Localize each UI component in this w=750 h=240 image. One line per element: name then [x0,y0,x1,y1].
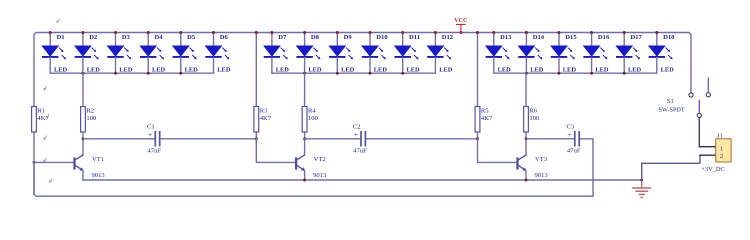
junction top rail at D17 [623,31,626,34]
resistor R2 value 100 (body + labels) [81,107,97,133]
svg-text:4K7: 4K7 [37,115,49,122]
wire collector VT2 to C2 left plate [305,138,361,140]
svg-text:C3: C3 [567,123,575,130]
junction bus at D9 cathode [336,72,339,75]
svg-text:VT1: VT1 [92,156,104,163]
LED D5 (wire, diode symbol, emission arrows, labels) [173,33,199,74]
LED D6 (wire, diode symbol, emission arrows, labels) [205,33,231,74]
svg-text:D10: D10 [376,34,388,41]
junction emitter VT3 on rail [525,179,528,182]
junction top rail at D5 [179,31,182,34]
LED D8 (wire, diode symbol, emission arrows, labels) [296,33,322,74]
svg-text:D6: D6 [220,34,229,41]
LED D2 (wire, diode symbol, emission arrows, labels) [75,33,101,74]
junction collector node VT3 [525,137,528,140]
junction bus at D4 cathode [147,72,150,75]
LED D13 (wire, diode symbol, emission arrows, labels) [486,33,513,74]
junction top rail at D2 [81,31,84,34]
junction bus at D11 cathode [401,72,404,75]
svg-text:100: 100 [308,115,319,122]
svg-text:VT2: VT2 [314,156,326,163]
switch S1 SW-SPDT (throw stubs, contacts, blade, pole) [659,78,711,118]
wire emitter/ground rail [83,179,642,181]
svg-text:D15: D15 [565,34,577,41]
svg-text:2: 2 [720,153,723,160]
wire VT3 emitter to emitter rail [525,171,527,180]
svg-text:LED: LED [217,67,231,74]
svg-text:9013: 9013 [535,172,549,179]
svg-text:D8: D8 [311,34,320,41]
junction top rail at D4 [147,31,150,34]
svg-text:4K7: 4K7 [260,115,272,122]
svg-text:D3: D3 [122,34,131,41]
wire bus to R6 top [525,73,527,106]
LED D18 (wire, diode symbol, emission arrows, labels) [649,33,676,74]
wire base node down to feedback rail [33,162,35,194]
wire LED cathode bus group 3 [494,72,657,74]
transistor VT1 9013 NPN (bar, collector, emitter with arrow, labels) [75,155,106,179]
svg-text:SW-SPDT: SW-SPDT [659,106,685,113]
LED D16 (wire, diode symbol, emission arrows, labels) [583,33,610,74]
junction bus at D2 cathode [81,72,84,75]
svg-text:D18: D18 [663,34,675,41]
svg-text:J1: J1 [717,132,723,139]
pin 2 stub of J1 [700,154,716,156]
wire C2 right plate to next stage [365,138,477,140]
svg-text:D13: D13 [500,34,512,41]
junction bus at D3 cathode [114,72,117,75]
LED D17 (wire, diode symbol, emission arrows, labels) [616,33,643,74]
wire base node down and to VT3 base [478,139,518,163]
wire R6 bottom to collector node [525,132,527,155]
svg-text:R5: R5 [481,108,489,115]
svg-text:D17: D17 [631,34,643,41]
wire bus to R2 top [82,73,84,106]
capacitor C3 47uF polarized (plates, + sign, labels) [567,123,581,154]
wire base node to VT1 base [34,161,75,163]
svg-text:100: 100 [86,115,97,122]
svg-text:R4: R4 [308,108,316,115]
junction base node VT2 [255,137,258,140]
svg-text:S1: S1 [667,98,674,105]
LED D12 (wire, diode symbol, emission arrows, labels) [427,33,454,74]
svg-text:C2: C2 [353,123,361,130]
transistor VT2 9013 NPN (bar, collector, emitter with arrow, labels) [296,155,327,179]
wire R1 bottom to base node [33,132,35,162]
ground symbol [632,180,651,197]
wire ground rail up to J1 pin 2 [642,155,700,180]
svg-text:4K7: 4K7 [481,115,493,122]
svg-text:R2: R2 [86,108,94,115]
LED D1 (wire, diode symbol, emission arrows, labels) [42,33,68,74]
wire S1 pole to J1 pin 1 [698,118,700,147]
svg-text:D2: D2 [89,34,98,41]
svg-text:R6: R6 [529,108,537,115]
resistor R3 value 4K7 (body + labels) [254,107,272,133]
resistor R4 value 100 (body + labels) [302,107,318,133]
svg-text:D9: D9 [344,34,353,41]
wire VT2 emitter to emitter rail [304,171,306,180]
power symbol VCC [454,17,467,33]
junction top rail at D3 [114,31,117,34]
svg-text:1: 1 [720,145,723,152]
junction rail at R5 [476,31,479,34]
LED D7 (wire, diode symbol, emission arrows, labels) [264,33,290,74]
junction top rail at D13 [492,31,495,34]
junction collector node VT1 [82,137,85,140]
svg-text:R1: R1 [37,108,45,115]
svg-text:D12: D12 [442,34,454,41]
pin 1 stub of J1 [699,146,715,148]
junction top rail at D12 [434,31,437,34]
junction top rail at D6 [212,31,215,34]
LED D10 (wire, diode symbol, emission arrows, labels) [362,33,389,74]
svg-text:+: + [568,130,572,139]
junction top rail at D14 [525,31,528,34]
LED D15 (wire, diode symbol, emission arrows, labels) [551,33,578,74]
junction base node VT3 [476,137,479,140]
wire LED cathode bus group 1 [50,72,213,74]
svg-text:D16: D16 [598,34,610,41]
junction bus at D10 cathode [369,72,372,75]
junction bus at D8 cathode [303,72,306,75]
LED D11 (wire, diode symbol, emission arrows, labels) [395,33,421,74]
junction top rail at D11 [401,31,404,34]
junction top rail at D1 [49,31,52,34]
junction bus at D17 cathode [623,72,626,75]
wire collector VT3 to C3 left plate [526,138,575,140]
junction base node VT1 (feedback) [33,161,36,164]
wire R5 bottom to base node [477,132,479,139]
junction collector node VT2 [303,137,306,140]
svg-text:LED: LED [439,67,453,74]
wire VCC rail to R5 top [477,33,479,107]
LED D4 (wire, diode symbol, emission arrows, labels) [140,33,166,74]
svg-text:D4: D4 [155,34,164,41]
svg-text:47uF: 47uF [353,147,367,154]
svg-text:47uF: 47uF [567,147,581,154]
capacitor C2 47uF polarized (plates, + sign, labels) [353,123,367,154]
svg-text:C1: C1 [147,123,155,130]
svg-text:VT3: VT3 [535,156,548,163]
connector J1 (+3V_DC battery header, pins 1 and 2) [701,132,731,173]
svg-text:9013: 9013 [313,172,327,179]
wire VCC rail to R3 top [255,33,257,107]
svg-text:47uF: 47uF [148,147,162,154]
capacitor C1 47uF polarized (plates, + sign, labels) [147,123,161,154]
LED D14 (wire, diode symbol, emission arrows, labels) [518,33,545,74]
svg-text:D14: D14 [533,34,545,41]
wire feedback rail C3 back to VT1 base [34,162,593,196]
wire LED cathode bus group 2 [272,72,436,74]
resistor R6 value 100 (body + labels) [524,107,540,133]
wire collector VT1 to C1 left plate [83,138,155,140]
wire R4 bottom to collector node [304,132,306,155]
junction bus at D16 cathode [590,72,593,75]
junction rail at R3 [255,31,258,34]
wire VCC top rail (with left corner to R1 and right corner to S1) [34,33,691,107]
wire R2 bottom to collector node [82,132,84,155]
junction top rail at D15 [558,31,561,34]
junction ground tap on rail [640,179,643,182]
resistor R1 value 4K7 (body + labels) [32,107,50,133]
resistor R5 value 4K7 (body + labels) [475,107,493,133]
svg-text:+: + [354,130,358,139]
junction VCC stub on rail [459,31,462,34]
wire C1 right plate to next stage [160,138,257,140]
junction top rail at D18 [655,31,658,34]
junction top rail at D7 [270,31,273,34]
wire base node down and to VT2 base [256,139,296,163]
LED D3 (wire, diode symbol, emission arrows, labels) [107,33,133,74]
junction top rail at D8 [303,31,306,34]
junction top rail at D16 [590,31,593,34]
wire C3 right plate to feedback drop [579,139,593,196]
svg-text:+: + [148,130,152,139]
transistor VT3 9013 NPN (bar, collector, emitter with arrow, labels) [518,155,549,179]
svg-text:R3: R3 [260,108,268,115]
junction emitter VT2 on rail [303,179,306,182]
svg-text:+3V_DC: +3V_DC [701,166,725,173]
svg-text:D7: D7 [278,34,287,41]
svg-text:D11: D11 [409,34,420,41]
junction top rail at D9 [336,31,339,34]
junction bus at D15 cathode [558,72,561,75]
junction bus at D5 cathode [179,72,182,75]
wire VT1 emitter to emitter rail [82,171,84,180]
junction bus at D14 cathode [525,72,528,75]
svg-text:D1: D1 [57,34,65,41]
svg-text:VCC: VCC [454,17,467,24]
wire bus to R4 top [304,73,306,106]
wire R3 bottom to base node [255,132,257,139]
LED D9 (wire, diode symbol, emission arrows, labels) [329,33,355,74]
svg-text:9013: 9013 [92,172,106,179]
svg-text:100: 100 [529,115,540,122]
svg-text:LED: LED [661,67,675,74]
svg-text:D5: D5 [187,34,196,41]
decorative grey marks (screenshot artifacts) [44,19,60,183]
junction top rail at D10 [369,31,372,34]
